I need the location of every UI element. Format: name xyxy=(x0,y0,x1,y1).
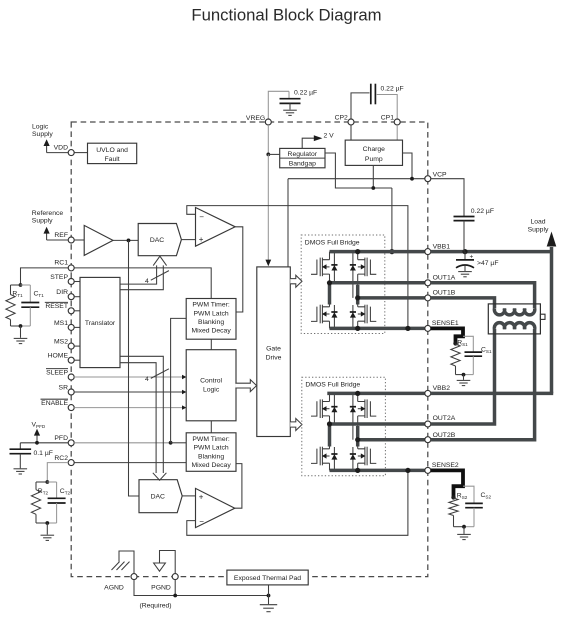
pin RESET (active low) xyxy=(68,308,74,314)
bus arrow control logic to gate drive xyxy=(235,380,256,392)
PWM timer 2 block xyxy=(186,433,236,472)
svg-text:DAC: DAC xyxy=(150,237,164,244)
svg-text:0.22 µF: 0.22 µF xyxy=(294,90,317,97)
ground at RS1/CS1 xyxy=(463,375,465,380)
svg-text:Pump: Pump xyxy=(365,156,383,163)
wire RC2 external to RT2/CT2 xyxy=(47,463,68,482)
wire SR to control logic xyxy=(74,391,183,393)
pin VBB2 xyxy=(425,390,431,396)
resistor RT2 xyxy=(45,480,49,484)
translator block xyxy=(80,277,120,367)
svg-text:+: + xyxy=(199,235,204,244)
bridge 2 low-side FET left xyxy=(311,447,330,466)
comparator 2 (op-amp) xyxy=(196,488,235,527)
wire control logic to PWM timer 2 xyxy=(210,421,212,433)
svg-text:OUT1B: OUT1B xyxy=(433,290,456,297)
wire MS2 to translator xyxy=(74,345,80,347)
wire CP2 into Charge Pump xyxy=(350,125,352,140)
pin AGND xyxy=(131,574,137,580)
SENSE1 external thick wire to RS1 xyxy=(431,328,463,342)
VBB1 rail (thick) xyxy=(330,250,425,254)
OUT1A rail (thick) xyxy=(330,281,425,285)
resistor RS2 xyxy=(451,495,455,499)
svg-text:RC2: RC2 xyxy=(54,455,68,462)
pin CP2 xyxy=(348,119,354,125)
wire SLEEP to control logic xyxy=(74,376,183,378)
capacitor 0.1uF at PFD xyxy=(10,448,32,450)
wire STEP to translator xyxy=(74,281,80,283)
charge pump U-block xyxy=(345,140,402,165)
pin MS1 xyxy=(68,324,74,330)
SENSE1 rail (thick) xyxy=(330,327,425,331)
bridge 1 high-side FET right (mirrored) xyxy=(358,258,377,277)
svg-text:VREG: VREG xyxy=(246,115,265,122)
bridge 2 low-side FET right (mirrored) xyxy=(358,447,377,466)
svg-text:DIR: DIR xyxy=(56,289,68,296)
junction VBB riser on VBB1 rail xyxy=(389,249,394,254)
bridge 2 left half-bridge column wires xyxy=(329,393,331,401)
wire PFD external to 0.1uF cap xyxy=(20,442,68,444)
capacitor CS2 xyxy=(463,486,474,503)
capacitor CT1 xyxy=(21,284,31,286)
PWM timer 1 block xyxy=(186,299,236,340)
wire comparator2 inverting input from SENSE2 xyxy=(187,470,408,535)
winding phase 2 (OUT2A-OUT2B) xyxy=(494,323,534,329)
bus arrow gate drive to bridge 1 xyxy=(290,275,302,287)
reference buffer amplifier xyxy=(74,239,84,241)
svg-text:Supply: Supply xyxy=(528,227,549,234)
svg-text:OUT2A: OUT2A xyxy=(433,415,456,422)
load supply arrow (thick) xyxy=(550,247,554,393)
pin STEP xyxy=(68,279,74,285)
capacitor 0.22uF VCP-VBB1 xyxy=(431,179,464,216)
OUT1B external wire to winding xyxy=(431,298,495,309)
bridge 1 high-side FET left xyxy=(311,258,330,277)
svg-text:+: + xyxy=(199,492,204,501)
svg-text:0.1 µF: 0.1 µF xyxy=(34,450,53,457)
svg-text:PFD: PFD xyxy=(54,435,68,442)
reference supply arrow xyxy=(47,239,72,241)
pin VBB1 xyxy=(425,249,431,255)
svg-text:Fault: Fault xyxy=(105,156,120,163)
bridge 1 body diode low right xyxy=(352,305,354,328)
OUT2B rail (thick) xyxy=(358,438,425,442)
svg-text:PGND: PGND xyxy=(151,584,171,591)
svg-text:SENSE1: SENSE1 xyxy=(432,320,459,327)
DAC 1 xyxy=(138,224,181,256)
pin OUT2B xyxy=(425,437,431,443)
pin SENSE2 xyxy=(425,467,431,473)
svg-text:Exposed Thermal Pad: Exposed Thermal Pad xyxy=(234,575,301,582)
pin CP1 xyxy=(394,119,400,125)
capacitor CS1 xyxy=(463,336,473,351)
wire VREG to decoupling cap xyxy=(268,91,289,119)
wire HOME to translator xyxy=(74,359,80,361)
VBB2 rail (thick) xyxy=(327,392,425,396)
pin RC2 xyxy=(68,460,74,466)
DMOS full bridge 2 dotted box xyxy=(302,377,386,476)
bridge 1 body diode high left xyxy=(333,252,335,283)
svg-text:SR: SR xyxy=(59,384,69,391)
svg-text:VBB1: VBB1 xyxy=(433,244,451,251)
pin RC1 xyxy=(68,265,74,271)
svg-text:Charge: Charge xyxy=(363,146,386,153)
V_PFD supply arrow xyxy=(36,434,38,443)
exposed thermal pad stub xyxy=(268,585,270,596)
bridge 1 right half-bridge column wires xyxy=(357,252,359,260)
pin OUT1A xyxy=(425,280,431,286)
svg-text:CP2: CP2 xyxy=(335,115,348,122)
svg-text:PWM Timer:: PWM Timer: xyxy=(192,302,229,309)
svg-text:4: 4 xyxy=(145,278,149,285)
OUT2A rail (thick) xyxy=(330,422,425,426)
OUT1B rail (thick) xyxy=(358,296,425,300)
bridge 2 right half-bridge column wires xyxy=(357,393,359,401)
bus width marker 4 (lower) xyxy=(151,369,169,379)
bridge 1 body diode low left xyxy=(333,305,335,328)
svg-text:−: − xyxy=(199,212,204,221)
svg-text:Regulator: Regulator xyxy=(288,151,318,158)
wire VREG down to regulator and gate drive xyxy=(267,125,269,154)
svg-text:VDD: VDD xyxy=(54,145,68,152)
2V output arrow xyxy=(302,138,314,148)
svg-text:DAC: DAC xyxy=(151,494,165,501)
pin VCP xyxy=(425,176,431,182)
comparator 1 (op-amp) xyxy=(196,208,236,247)
svg-text:Blanking: Blanking xyxy=(198,453,224,460)
bridge 1 low-side FET left xyxy=(311,305,330,324)
wire comparator1 inverting input from SENSE1 xyxy=(187,206,408,329)
svg-text:4: 4 xyxy=(145,376,149,383)
stepper motor body xyxy=(488,304,540,334)
wire RC2 internal to PWM timer 2 xyxy=(74,462,186,464)
wire comparator1 output to PWM timer 1 xyxy=(235,227,243,312)
bridge 1 body diode high right xyxy=(352,252,354,298)
svg-text:−: − xyxy=(199,517,204,526)
OUT1A external wire to winding xyxy=(431,283,535,309)
bus (4) translator to DAC1 xyxy=(120,265,163,289)
AGND chassis symbol xyxy=(119,551,134,574)
svg-text:VCP: VCP xyxy=(433,171,447,178)
svg-text:AGND: AGND xyxy=(104,584,124,591)
svg-text:2 V: 2 V xyxy=(324,132,335,139)
ground at 0.1uF cap xyxy=(14,468,28,470)
exposed thermal pad box xyxy=(227,570,308,585)
gate drive block xyxy=(257,267,291,437)
svg-text:STEP: STEP xyxy=(50,274,68,281)
capacitor 0.22uF at VREG xyxy=(288,91,290,98)
motor shaft tab xyxy=(540,314,545,319)
svg-text:Mixed Decay: Mixed Decay xyxy=(191,462,231,469)
VBB1 external rail to load supply xyxy=(431,250,552,254)
pin HOME xyxy=(68,357,74,363)
svg-text:MS2: MS2 xyxy=(54,339,68,346)
wire CP1 into Charge Pump xyxy=(396,125,398,140)
wire RC1 external to RT1/CT1 xyxy=(21,268,69,285)
svg-text:Bandgap: Bandgap xyxy=(289,161,316,168)
svg-text:ENABLE: ENABLE xyxy=(41,400,68,407)
regulator / bandgap block xyxy=(280,148,325,167)
UVLO and fault block xyxy=(88,143,137,163)
wire PFD internal to PWM timers xyxy=(74,442,170,444)
svg-text:PWM Timer:: PWM Timer: xyxy=(192,436,229,443)
OUT2A external wire to winding xyxy=(431,329,495,424)
SENSE2 external thick wire to RS2 xyxy=(431,470,463,496)
wire VBB net: regulator to charge pump bottom to VBB1 rail xyxy=(325,153,392,188)
svg-text:HOME: HOME xyxy=(48,353,69,360)
control logic block xyxy=(186,350,236,421)
wire buffer output to DACs xyxy=(113,239,138,241)
wire DAC2 output to comparator 2 xyxy=(182,495,195,497)
pin REF xyxy=(68,237,74,243)
pin ENABLE (active low) xyxy=(68,405,74,411)
svg-text:Load: Load xyxy=(530,219,545,226)
bus arrow gate drive to bridge 2 xyxy=(290,419,302,431)
wire comparator2 output to PWM timer 2 xyxy=(235,464,242,509)
svg-text:Drive: Drive xyxy=(266,355,282,362)
VBB2 external rail to load supply xyxy=(431,392,554,396)
svg-text:Supply: Supply xyxy=(32,217,53,224)
svg-text:Gate: Gate xyxy=(266,346,281,353)
bridge 2 body diode high left xyxy=(333,393,335,424)
svg-text:PWM Latch: PWM Latch xyxy=(194,310,229,317)
system ground symbol xyxy=(268,596,270,605)
wire DIR to translator xyxy=(74,296,80,298)
wire VCP net: charge pump to VCP pin and gate drive xyxy=(288,153,425,267)
svg-text:MS1: MS1 xyxy=(54,320,68,327)
wire VDD to UVLO block xyxy=(74,152,87,154)
wire PWM1 to control logic xyxy=(210,339,212,350)
ground at RT2/CT2 xyxy=(46,523,48,535)
bus (4) translator to DAC2 xyxy=(120,356,163,473)
svg-text:Blanking: Blanking xyxy=(198,319,224,326)
svg-text:REF: REF xyxy=(54,232,68,239)
bridge 2 high-side FET left xyxy=(311,399,330,418)
ground at RT1/CT1 xyxy=(20,326,22,338)
wire CP2 to flying cap xyxy=(351,93,370,119)
svg-text:Mixed Decay: Mixed Decay xyxy=(191,328,231,335)
svg-text:VBB2: VBB2 xyxy=(433,385,451,392)
arrowhead VREG into gate drive xyxy=(265,260,271,267)
svg-text:Logic: Logic xyxy=(32,124,49,131)
wire DAC1 output to comparator 1 xyxy=(181,239,195,241)
pin OUT2A xyxy=(425,421,431,427)
wire RESET to translator xyxy=(74,310,80,312)
winding phase 1 (OUT1A-OUT1B) xyxy=(494,309,534,315)
logic supply arrow xyxy=(47,152,72,154)
svg-text:SENSE2: SENSE2 xyxy=(432,462,459,469)
wire ENABLE to control logic xyxy=(74,407,183,409)
bridge 1 low-side FET right (mirrored) xyxy=(358,305,377,324)
pin SLEEP (active low) xyxy=(68,374,74,380)
svg-text:Functional Block Diagram: Functional Block Diagram xyxy=(191,5,381,24)
wire MS1 to translator xyxy=(74,326,80,328)
pin SR xyxy=(68,389,74,395)
IC package boundary (dashed) xyxy=(71,122,428,577)
PGND arrow symbol xyxy=(160,551,176,574)
svg-text:SLEEP: SLEEP xyxy=(46,369,68,376)
pin MS2 xyxy=(68,343,74,349)
DAC 2 xyxy=(139,480,182,513)
svg-text:Logic: Logic xyxy=(203,387,220,394)
bulk capacitor >47uF (electrolytic) xyxy=(464,252,466,260)
svg-text:Supply: Supply xyxy=(32,131,53,138)
svg-text:Control: Control xyxy=(200,377,222,384)
capacitor 0.22uF flying (CP1-CP2) xyxy=(370,84,372,105)
DMOS full bridge 1 dotted box xyxy=(301,235,385,334)
svg-text:+: + xyxy=(470,253,474,260)
svg-text:CP1: CP1 xyxy=(381,115,394,122)
svg-text:(Required): (Required) xyxy=(139,603,171,610)
svg-text:DMOS Full Bridge: DMOS Full Bridge xyxy=(305,382,360,389)
svg-text:OUT1A: OUT1A xyxy=(433,274,456,281)
svg-text:PWM Latch: PWM Latch xyxy=(194,445,229,452)
SENSE2 rail (thick) xyxy=(330,469,425,473)
wire AGND/PGND to system ground xyxy=(134,580,269,596)
bus width marker 4 (upper) xyxy=(151,271,169,281)
pin PGND xyxy=(172,574,178,580)
wire CP1 to flying cap xyxy=(377,95,398,120)
pin PFD xyxy=(68,440,74,446)
pin VREG xyxy=(265,119,271,125)
bridge 1 left half-bridge column wires xyxy=(329,252,331,260)
svg-text:RC1: RC1 xyxy=(54,259,68,266)
svg-text:0.22 µF: 0.22 µF xyxy=(381,86,404,93)
pin SENSE1 xyxy=(425,325,431,331)
bridge 2 body diode high right xyxy=(352,393,354,439)
svg-text:DMOS Full Bridge: DMOS Full Bridge xyxy=(305,239,360,246)
pin DIR xyxy=(68,294,74,300)
bridge 2 body diode low left xyxy=(333,447,335,470)
bridge 2 high-side FET right (mirrored) xyxy=(358,399,377,418)
svg-text:>47 µF: >47 µF xyxy=(477,260,499,267)
resistor RT1 xyxy=(19,283,23,287)
resistor RS1 xyxy=(453,341,457,345)
OUT2B external wire to winding xyxy=(431,329,535,440)
svg-text:UVLO and: UVLO and xyxy=(96,147,128,154)
ground at RS2/CS2 xyxy=(463,527,465,534)
svg-text:Reference: Reference xyxy=(32,210,64,217)
svg-text:0.22 µF: 0.22 µF xyxy=(471,208,494,215)
ground at bulk cap xyxy=(458,271,472,273)
ground at VREG cap xyxy=(283,109,297,111)
svg-text:Translator: Translator xyxy=(85,320,116,327)
bridge 2 body diode low right xyxy=(352,447,354,470)
wire RC1 internal to PWM timer 1 xyxy=(74,268,211,299)
svg-text:RESET: RESET xyxy=(45,303,68,310)
pin OUT1B xyxy=(425,295,431,301)
pin VDD xyxy=(68,150,74,156)
capacitor CT2 xyxy=(47,481,56,483)
